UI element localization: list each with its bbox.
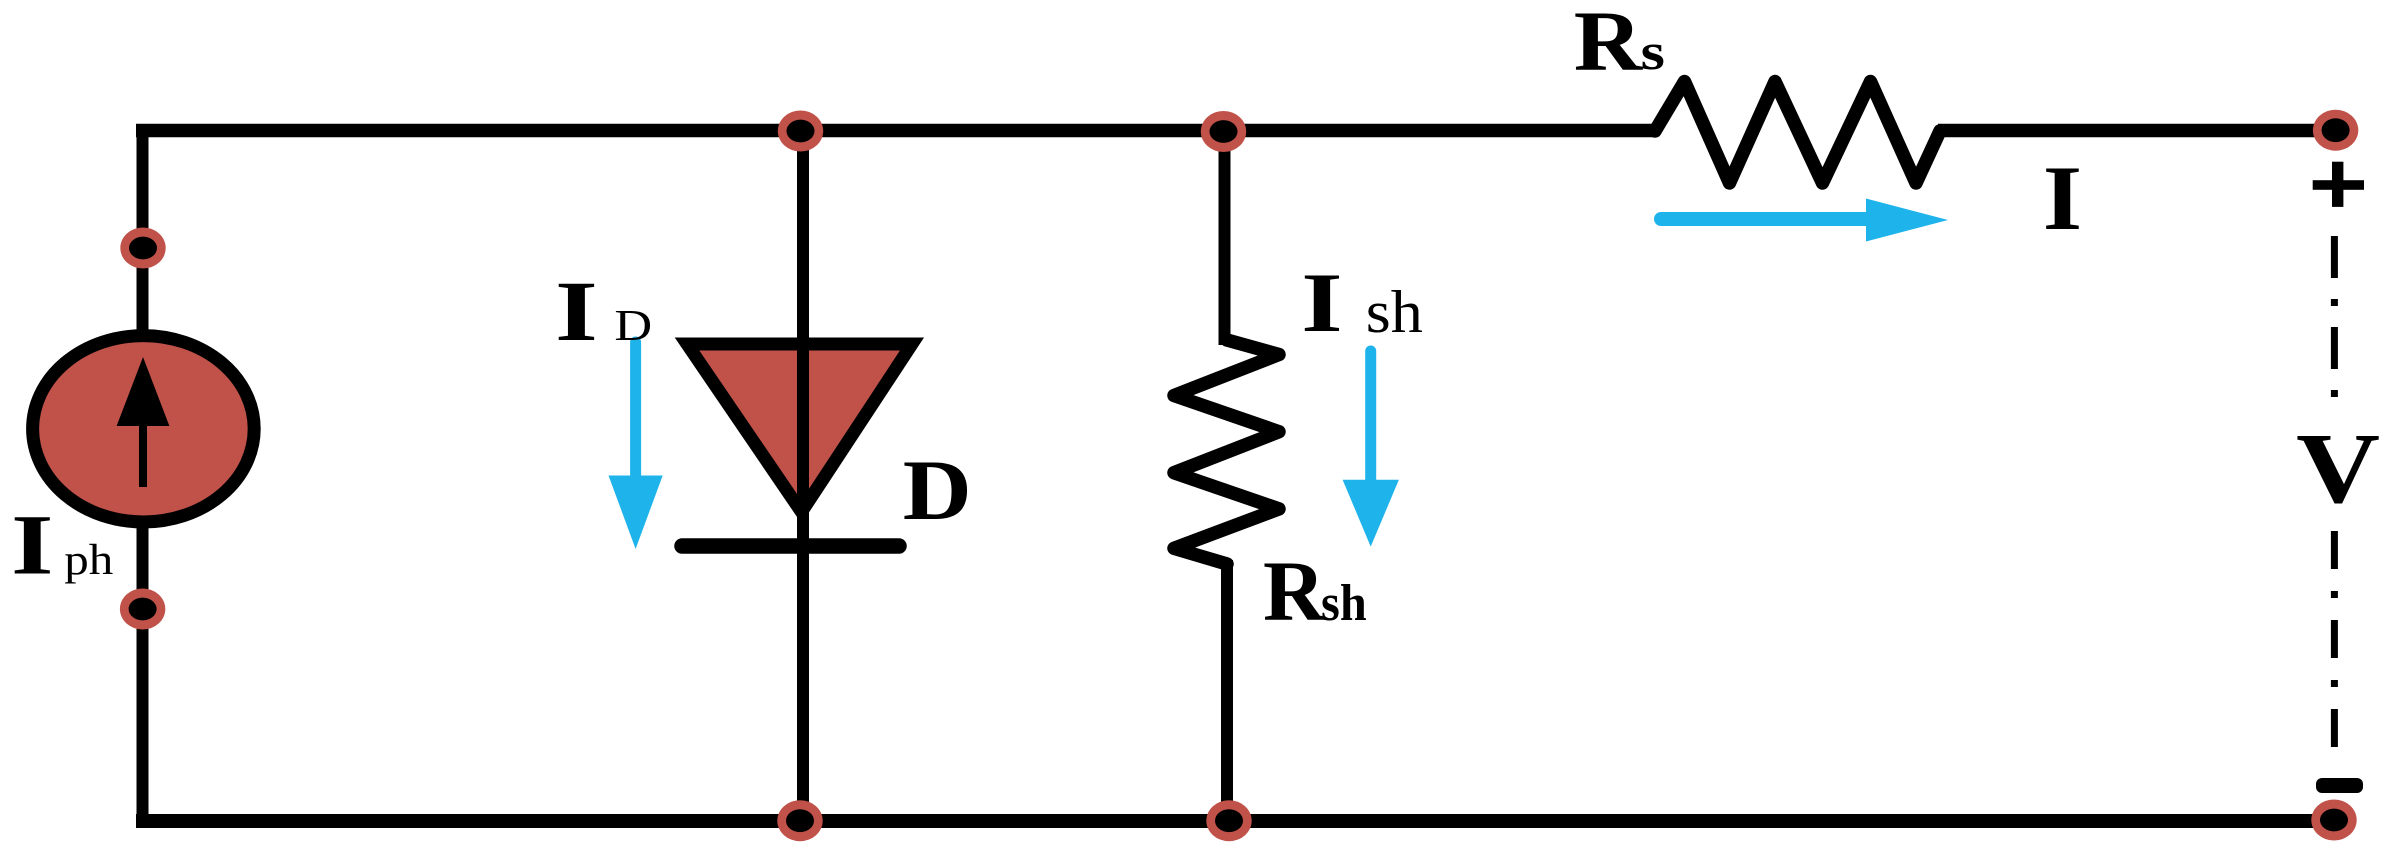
svg-text:ph: ph bbox=[64, 536, 113, 584]
wire bottom rail bbox=[136, 814, 2336, 828]
current arrow ID (cyan) bbox=[630, 342, 641, 480]
svg-text:I: I bbox=[11, 497, 53, 592]
node left upper bbox=[120, 228, 165, 269]
svg-text:s: s bbox=[1641, 24, 1665, 81]
node Rsh top bbox=[1201, 111, 1246, 152]
svg-text:D: D bbox=[903, 442, 972, 538]
svg-text:R: R bbox=[1574, 0, 1644, 89]
current source arrowhead bbox=[117, 357, 170, 426]
svg-text:V: V bbox=[2296, 412, 2380, 524]
svg-text:sh: sh bbox=[1321, 573, 1367, 631]
wire top rail right of Rs bbox=[1938, 124, 2336, 138]
dash-dot line upper bbox=[2331, 236, 2338, 397]
svg-text:I: I bbox=[2043, 147, 2082, 249]
svg-text:R: R bbox=[1263, 543, 1326, 639]
terminal plus bbox=[2313, 180, 2364, 190]
wire top rail left of Rs bbox=[136, 124, 1654, 138]
resistor Rs bbox=[1655, 82, 1940, 184]
current arrow Ish (cyan) bbox=[1365, 351, 1376, 484]
current source Iph circle bbox=[33, 336, 255, 522]
dash-dot line lower bbox=[2331, 531, 2338, 750]
node terminal bottom right bbox=[2311, 800, 2356, 841]
diode cathode bar bbox=[682, 538, 899, 554]
svg-text:sh: sh bbox=[1366, 280, 1423, 346]
resistor Rsh bbox=[1174, 340, 1279, 564]
node terminal top right bbox=[2313, 110, 2358, 151]
current source arrow shaft bbox=[139, 418, 147, 487]
diode D triangle bbox=[687, 344, 912, 512]
wire Rsh top lead bbox=[1219, 131, 1231, 345]
node diode top bbox=[778, 111, 823, 152]
svg-text:I: I bbox=[1301, 255, 1342, 350]
wire diode branch vertical bbox=[797, 124, 809, 821]
terminal minus bbox=[2316, 778, 2363, 793]
node Rsh bottom bbox=[1206, 800, 1251, 841]
node left lower bbox=[120, 589, 165, 630]
wire left branch vertical bbox=[137, 124, 149, 821]
svg-text:I: I bbox=[555, 264, 598, 359]
wire Rsh bottom lead bbox=[1221, 560, 1233, 821]
node diode bottom bbox=[777, 800, 822, 841]
current arrow I (cyan) bbox=[1661, 212, 1870, 226]
svg-text:D: D bbox=[614, 302, 652, 350]
